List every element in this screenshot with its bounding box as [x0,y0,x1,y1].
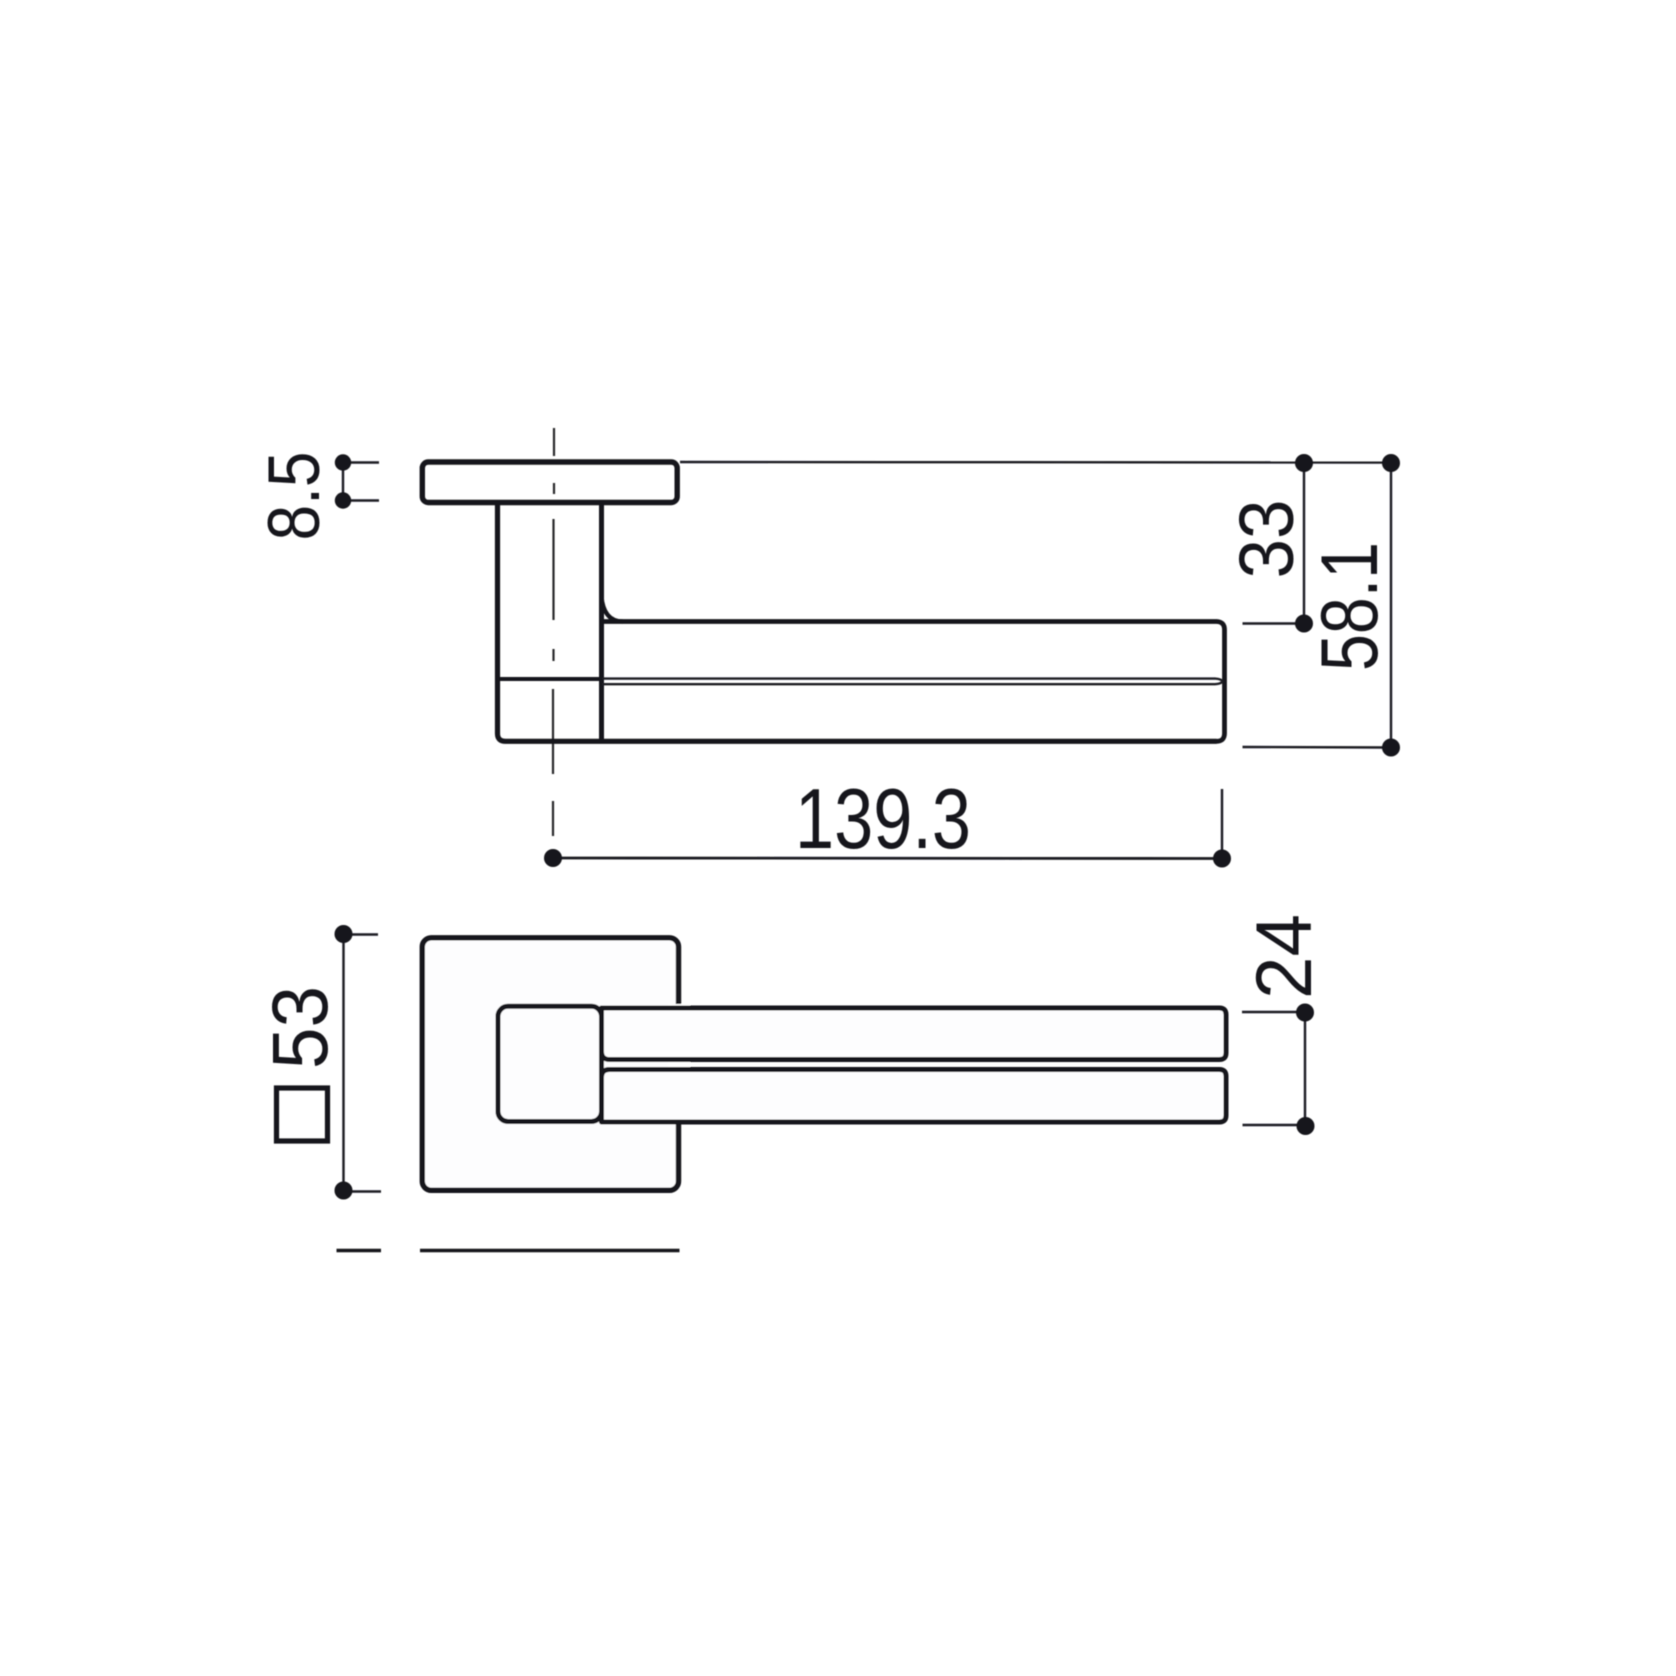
svg-text:53: 53 [255,986,344,1069]
svg-text:24: 24 [1239,914,1328,999]
svg-text:8.5: 8.5 [254,452,335,541]
svg-text:58.1: 58.1 [1305,542,1395,671]
svg-text:33: 33 [1224,500,1310,579]
svg-text:139.3: 139.3 [795,772,971,867]
